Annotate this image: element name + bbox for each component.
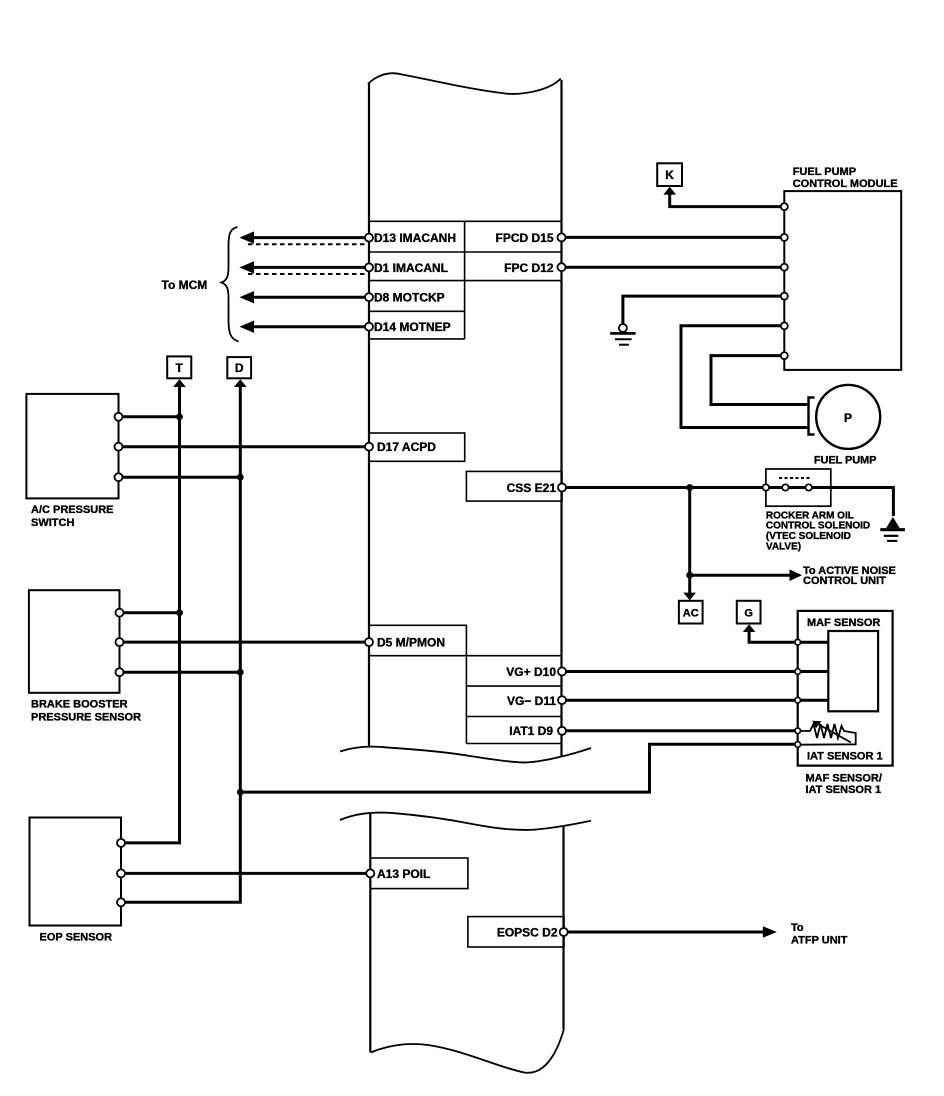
fuel pump label — [814, 455, 876, 467]
wire branch to active noise control unit — [690, 574, 791, 577]
pin label CSS E21 — [507, 481, 557, 495]
arrowhead MCM D13 — [240, 231, 255, 243]
svg-text:A/C PRESSURE: A/C PRESSURE — [31, 504, 114, 516]
rocker arm solenoid dashed internal line — [779, 477, 812, 479]
arrowhead into D box — [234, 379, 247, 387]
junction dot active noise branch — [686, 572, 693, 579]
svg-text:D: D — [235, 361, 244, 375]
svg-text:CONTROL MODULE: CONTROL MODULE — [793, 178, 898, 190]
svg-text:D17 ACPD: D17 ACPD — [377, 440, 436, 454]
svg-text:CSS E21: CSS E21 — [507, 481, 557, 495]
A/C pressure switch box — [26, 394, 118, 499]
rocker arm solenoid label — [766, 510, 870, 552]
D terminal box — [227, 357, 251, 378]
junction dot D line IAT branch — [237, 789, 244, 796]
ECM/PCM band top wavy break — [368, 73, 561, 94]
wire VG+ D10 to MAF sensor — [566, 670, 828, 673]
svg-text:G: G — [744, 607, 753, 619]
wire D1 IMACANL dashed pair — [248, 273, 366, 275]
pin box D5 M/PMON — [369, 625, 466, 655]
svg-text:D14 MOTNEP: D14 MOTNEP — [374, 320, 451, 334]
ECM/PCM band lower bottom wavy break — [371, 1029, 564, 1073]
junction dot A/C pin1 on T line — [176, 413, 183, 420]
wire fuel pump control module pin4 to ground — [623, 296, 781, 323]
A/C pressure switch terminals — [115, 413, 123, 481]
to active noise control unit label — [803, 565, 896, 587]
svg-text:IAT1 D9: IAT1 D9 — [509, 724, 553, 738]
svg-text:SWITCH: SWITCH — [31, 517, 74, 529]
svg-text:D5 M/PMON: D5 M/PMON — [377, 636, 445, 650]
arrowhead MCM D14 — [240, 321, 255, 333]
EOP sensor label — [40, 932, 113, 944]
MAF sensor / IAT sensor 1 caption — [806, 773, 882, 797]
MAF sensor outer box — [798, 611, 893, 766]
pin label EOPSC D2 — [497, 926, 558, 940]
T line vertical wire — [125, 387, 180, 843]
junction dot brake booster pin1 on T line — [176, 609, 183, 616]
junction dot brake booster pin3 on D line — [237, 669, 244, 676]
pin row grid upper-left (D13/D1/D8/D14 boxes) — [369, 221, 465, 339]
pin label D14 MOTNEP — [374, 320, 451, 334]
pin box CSS E21 — [466, 471, 562, 501]
EOP sensor box — [30, 818, 122, 926]
svg-text:IAT SENSOR 1: IAT SENSOR 1 — [806, 784, 882, 796]
svg-text:A13 POIL: A13 POIL — [377, 867, 430, 881]
wire G terminal from MAF sensor — [749, 632, 828, 643]
ECM/PCM connector band lower left edge — [369, 814, 371, 1053]
pin label D17 ACPD — [377, 440, 436, 454]
svg-text:D13 IMACANH: D13 IMACANH — [374, 231, 456, 245]
svg-text:D1 IMACANL: D1 IMACANL — [374, 261, 448, 275]
fuel pump motor circle P — [816, 385, 880, 449]
pin terminal circles on band — [365, 233, 568, 936]
EOP sensor terminals — [117, 839, 125, 906]
fuel pump control module box — [784, 191, 901, 370]
wire EOP sensor pin2 to A13 POIL — [125, 872, 367, 875]
wire D1 IMACANL to MCM (solid) — [253, 266, 366, 269]
To ATFP unit label — [791, 922, 848, 947]
svg-text:MAF SENSOR: MAF SENSOR — [807, 617, 880, 629]
ECM/PCM band upper bottom wavy break — [340, 747, 591, 763]
pin row grid upper-right (FPCD/FPC boxes) — [465, 221, 562, 280]
wire FPC D12 to fuel pump control module — [566, 266, 781, 269]
wire K terminal from fuel pump control module — [670, 194, 781, 207]
wire fuel pump control module pin6 to fuel pump — [711, 356, 809, 405]
pin box EOPSC D2 — [468, 917, 564, 947]
ECM/PCM connector band upper left edge — [368, 83, 370, 748]
svg-text:To: To — [791, 922, 804, 934]
wire D8 MOTCKP to MCM — [253, 296, 366, 299]
wire CSS E21 to VTEC solenoid and ground — [566, 488, 893, 517]
K terminal box — [657, 163, 682, 186]
pin row grid VG+/VG-/IAT1 — [466, 656, 562, 744]
pin label A13 POIL — [377, 867, 430, 881]
ECM/PCM connector band upper right edge — [560, 80, 562, 757]
svg-text:CONTROL UNIT: CONTROL UNIT — [803, 575, 886, 587]
arrowhead to active noise control unit — [790, 569, 803, 581]
pin label D8 MOTCKP — [374, 291, 445, 305]
svg-text:VG− D11: VG− D11 — [507, 694, 556, 708]
pin label D5 M/PMON — [377, 636, 445, 650]
wire VG- D11 to MAF sensor — [566, 699, 828, 702]
pin label VG- D11 — [507, 694, 556, 708]
wire IAT1 D9 to MAF sensor — [566, 729, 796, 732]
MAF sensor label (inside) — [807, 617, 880, 629]
wire A/C switch pin1 to T line — [123, 415, 180, 418]
svg-text:PRESSURE SENSOR: PRESSURE SENSOR — [31, 711, 141, 723]
pin label FPC D12 — [504, 261, 554, 275]
rocker arm oil control solenoid box — [766, 469, 831, 506]
junction dot A/C pin3 on D line — [237, 474, 244, 481]
MAF terminals — [795, 639, 801, 747]
brake booster pressure sensor box — [29, 590, 120, 693]
svg-text:T: T — [176, 361, 184, 375]
svg-text:To MCM: To MCM — [162, 278, 208, 292]
arrowhead MCM D8 — [240, 291, 255, 303]
ECM/PCM connector band lower right edge — [562, 826, 564, 1029]
T terminal box — [167, 356, 191, 378]
wire branch to AC terminal — [688, 488, 691, 594]
pin label VG+ D10 — [506, 665, 556, 679]
pin label FPCD D15 — [495, 231, 553, 245]
svg-text:VG+ D10: VG+ D10 — [506, 665, 556, 679]
wire brake booster pin2 to D5 M/PMON — [124, 641, 367, 644]
arrowhead into T box — [173, 379, 186, 387]
arrowhead to ATFP unit — [763, 926, 777, 938]
IAT sensor 1 thermistor — [800, 721, 856, 745]
wire EOPSC D2 to ATFP unit — [568, 931, 763, 934]
ECM/PCM band lower top wavy break — [340, 813, 591, 830]
svg-text:MAF SENSOR/: MAF SENSOR/ — [806, 773, 882, 785]
svg-text:BRAKE BOOSTER: BRAKE BOOSTER — [31, 699, 128, 711]
wire D line branch to IAT sensor ground side — [240, 744, 796, 792]
chassis ground (VTEC solenoid) — [880, 517, 905, 541]
svg-text:EOPSC D2: EOPSC D2 — [497, 926, 558, 940]
junction dot CSS wire AC branch — [686, 484, 693, 491]
wire A/C switch pin2 to D17 ACPD — [123, 445, 367, 448]
svg-text:CONTROL SOLENOID: CONTROL SOLENOID — [766, 521, 870, 532]
pin label D1 IMACANL — [374, 261, 448, 275]
wire D13 IMACANH dashed pair — [248, 243, 366, 245]
fuel pump connector bracket — [809, 398, 815, 435]
svg-text:K: K — [665, 168, 674, 182]
arrowhead into AC box — [683, 593, 696, 601]
wire A/C switch pin3 to D line — [123, 476, 241, 479]
arrowhead MCM D1 — [240, 261, 255, 273]
svg-text:FPC D12: FPC D12 — [504, 261, 554, 275]
svg-text:FUEL PUMP: FUEL PUMP — [793, 166, 856, 178]
fuel pump control module label — [793, 166, 898, 190]
fuel pump control module terminals — [781, 203, 788, 359]
wire brake booster pin3 to D line — [124, 671, 241, 674]
MAF sensor inner box — [828, 631, 878, 711]
ground G101 (fuel pump control module) — [610, 324, 635, 345]
G terminal box — [737, 601, 761, 624]
svg-text:(VTEC SOLENOID: (VTEC SOLENOID — [766, 531, 851, 542]
svg-text:ATFP UNIT: ATFP UNIT — [791, 935, 848, 947]
pin box A13 POIL — [370, 858, 468, 889]
wire brake booster pin1 to T line — [124, 611, 180, 614]
wire D14 MOTNEP to MCM — [253, 325, 366, 328]
svg-text:VALVE): VALVE) — [766, 542, 801, 553]
To MCM label — [162, 278, 208, 292]
svg-text:AC: AC — [683, 607, 699, 619]
pin box D17 ACPD — [369, 433, 465, 461]
wire FPCD D15 to fuel pump control module — [566, 236, 781, 239]
D line vertical wire — [125, 387, 240, 903]
pin label D13 IMACANH — [374, 231, 456, 245]
A/C pressure switch label — [31, 504, 114, 529]
pin label IAT1 D9 — [509, 724, 553, 738]
brake booster sensor terminals — [116, 609, 124, 677]
IAT sensor 1 label (inside) — [807, 751, 883, 763]
svg-text:FUEL PUMP: FUEL PUMP — [814, 455, 876, 467]
rocker arm solenoid terminals — [763, 484, 812, 490]
AC terminal box — [679, 601, 703, 624]
arrowhead into G box — [743, 624, 756, 632]
svg-text:D8 MOTCKP: D8 MOTCKP — [374, 291, 445, 305]
svg-text:EOP SENSOR: EOP SENSOR — [40, 932, 113, 944]
brake booster pressure sensor label — [31, 699, 141, 724]
svg-text:IAT SENSOR 1: IAT SENSOR 1 — [807, 751, 883, 763]
svg-text:P: P — [844, 411, 852, 425]
svg-text:ROCKER ARM OIL: ROCKER ARM OIL — [766, 510, 854, 521]
arrowhead into K box — [663, 187, 676, 195]
curly brace To MCM — [222, 227, 239, 342]
svg-text:FPCD D15: FPCD D15 — [495, 231, 553, 245]
wire fuel pump control module pin5 to fuel pump — [681, 326, 809, 428]
wire D13 IMACANH to MCM (solid) — [253, 236, 366, 239]
